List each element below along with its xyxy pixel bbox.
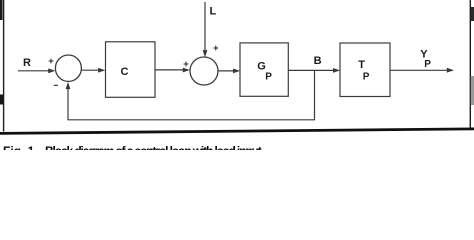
svg-text:T: T (358, 59, 365, 71)
svg-text:P: P (363, 72, 370, 83)
svg-text:L: L (210, 6, 217, 18)
svg-text:R: R (23, 57, 31, 69)
svg-text:B: B (314, 55, 322, 67)
svg-text:P: P (265, 72, 272, 83)
svg-text:C: C (121, 66, 129, 78)
svg-text:Fig. 1.: Fig. 1. (3, 144, 38, 150)
svg-text:Block diagram of a control loo: Block diagram of a control loop with loa… (45, 144, 264, 150)
svg-text:P: P (424, 59, 431, 70)
